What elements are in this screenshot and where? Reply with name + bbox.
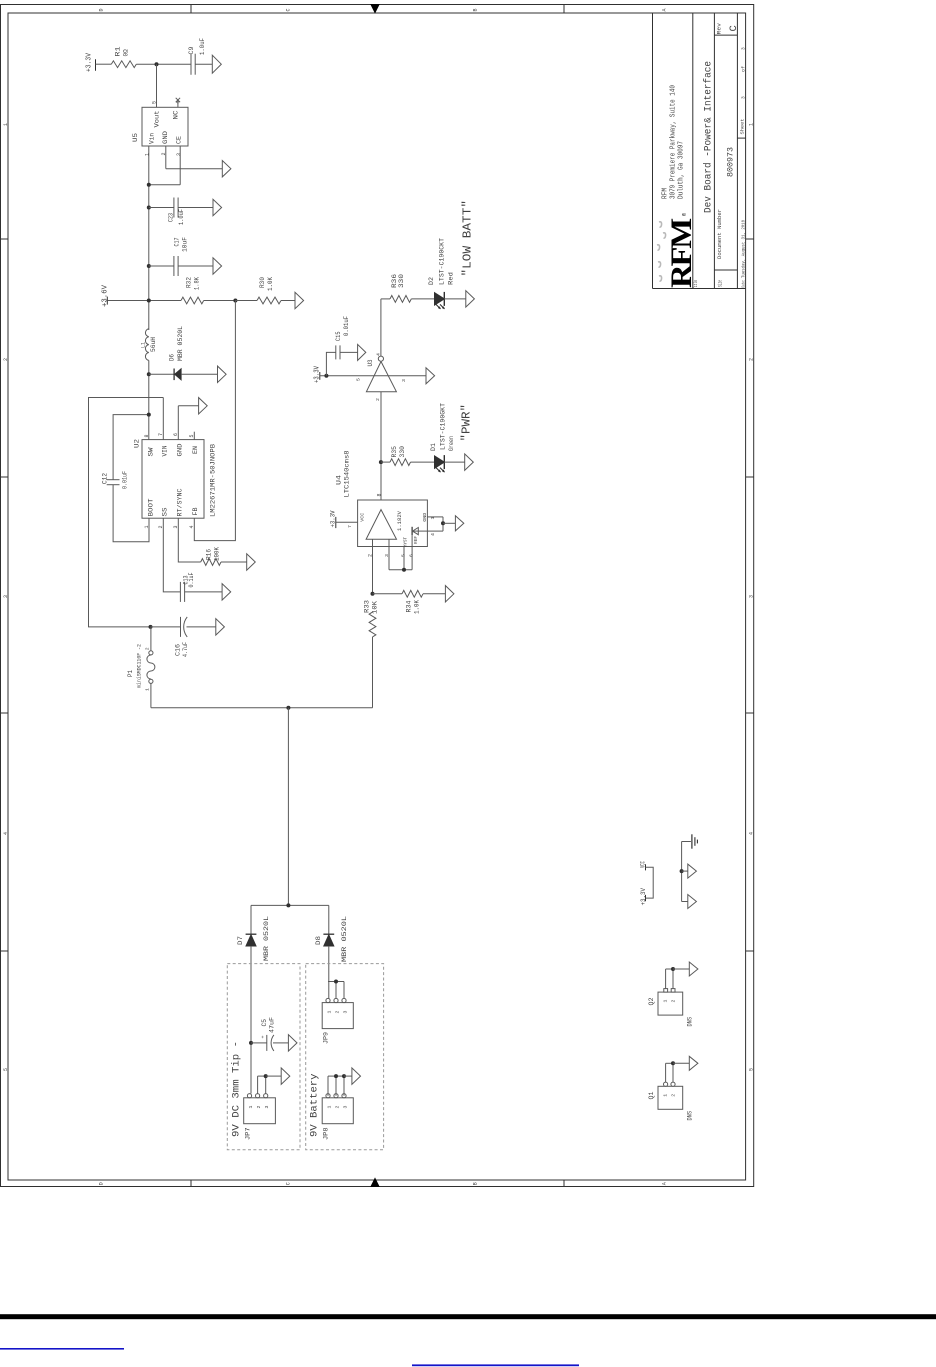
svg-text:R35: R35 bbox=[391, 446, 398, 458]
svg-text:6: 6 bbox=[409, 554, 415, 557]
svg-text:L1: L1 bbox=[140, 341, 147, 348]
svg-text:C16: C16 bbox=[175, 644, 182, 656]
svg-text:Duluth, Ga 30097: Duluth, Ga 30097 bbox=[678, 141, 686, 199]
svg-text:Date:: Date: bbox=[741, 280, 747, 288]
svg-text:1.8K: 1.8K bbox=[194, 277, 201, 290]
svg-text:MBR 0520L: MBR 0520L bbox=[177, 326, 184, 361]
svg-text:U4: U4 bbox=[336, 475, 343, 485]
svg-text:HYST: HYST bbox=[403, 537, 409, 547]
svg-text:5: 5 bbox=[356, 378, 362, 381]
svg-text:4: 4 bbox=[189, 525, 195, 528]
svg-text:JP9: JP9 bbox=[323, 1032, 330, 1044]
svg-text:C23: C23 bbox=[168, 213, 175, 222]
svg-text:1: 1 bbox=[145, 153, 151, 156]
svg-text:3: 3 bbox=[741, 96, 747, 99]
svg-text:6: 6 bbox=[173, 433, 179, 436]
svg-text:8: 8 bbox=[144, 434, 150, 437]
svg-text:7: 7 bbox=[158, 433, 164, 436]
svg-text:330: 330 bbox=[398, 274, 405, 288]
svg-text:Sheet: Sheet bbox=[740, 118, 746, 134]
svg-text:DNS: DNS bbox=[687, 1111, 694, 1121]
svg-text:C12: C12 bbox=[102, 473, 109, 484]
svg-text:D7: D7 bbox=[237, 936, 244, 945]
svg-text:C15: C15 bbox=[335, 331, 342, 341]
svg-text:1: 1 bbox=[327, 1011, 333, 1014]
svg-text:47uF: 47uF bbox=[269, 1017, 276, 1033]
svg-text:3: 3 bbox=[401, 379, 407, 382]
svg-text:D: D bbox=[99, 8, 105, 11]
svg-text:EN: EN bbox=[192, 446, 199, 454]
svg-text:LTST-C190GKT: LTST-C190GKT bbox=[440, 403, 447, 450]
svg-text:U5: U5 bbox=[132, 133, 139, 142]
svg-text:SW: SW bbox=[148, 447, 155, 456]
svg-text:MBR 0520L: MBR 0520L bbox=[341, 916, 348, 962]
svg-text:8: 8 bbox=[377, 493, 383, 496]
svg-text:C: C bbox=[728, 25, 740, 31]
svg-text:Q2: Q2 bbox=[648, 997, 655, 1005]
svg-text:GND: GND bbox=[422, 513, 428, 522]
svg-text:2: 2 bbox=[335, 1011, 341, 1014]
svg-text:SS: SS bbox=[162, 507, 169, 516]
svg-text:"PWR": "PWR" bbox=[460, 404, 474, 442]
svg-text:2: 2 bbox=[375, 398, 381, 401]
svg-text:2: 2 bbox=[144, 647, 150, 650]
svg-text:Vin: Vin bbox=[149, 133, 156, 144]
svg-text:Vout: Vout bbox=[154, 110, 161, 127]
svg-text:P1: P1 bbox=[127, 670, 134, 677]
svg-text:2: 2 bbox=[670, 1000, 676, 1003]
svg-text:Dev Board -Power& Interface: Dev Board -Power& Interface bbox=[703, 61, 715, 213]
svg-text:R32: R32 bbox=[186, 277, 193, 288]
svg-text:D6: D6 bbox=[169, 354, 176, 361]
svg-text:3: 3 bbox=[343, 1011, 349, 1014]
svg-text:4: 4 bbox=[3, 832, 9, 835]
svg-text:D: D bbox=[99, 1182, 105, 1185]
svg-text:3: 3 bbox=[264, 1106, 270, 1109]
svg-text:Rev: Rev bbox=[717, 23, 723, 35]
svg-text:330: 330 bbox=[399, 446, 406, 458]
svg-text:R30: R30 bbox=[259, 277, 266, 288]
svg-text:2: 2 bbox=[335, 1106, 341, 1109]
svg-text:5: 5 bbox=[189, 434, 195, 437]
svg-text:+3.3V: +3.3V bbox=[86, 52, 94, 72]
svg-text:1: 1 bbox=[430, 517, 436, 520]
svg-text:7: 7 bbox=[347, 525, 353, 528]
svg-text:1: 1 bbox=[748, 123, 754, 126]
svg-text:D2: D2 bbox=[428, 277, 435, 285]
svg-text:B: B bbox=[473, 1182, 479, 1185]
svg-text:0.1uF: 0.1uF bbox=[188, 572, 195, 587]
svg-text:10uF: 10uF bbox=[182, 237, 189, 252]
svg-text:JP8: JP8 bbox=[323, 1127, 330, 1140]
svg-text:VCC: VCC bbox=[360, 513, 366, 522]
svg-text:U2: U2 bbox=[134, 439, 141, 448]
svg-text:U3: U3 bbox=[367, 359, 374, 366]
svg-text:4: 4 bbox=[748, 832, 754, 835]
svg-text:0.01uF: 0.01uF bbox=[343, 316, 350, 336]
svg-text:3: 3 bbox=[343, 1106, 349, 1109]
svg-text:5: 5 bbox=[748, 1068, 754, 1071]
svg-text:C: C bbox=[286, 1182, 292, 1185]
svg-text:Title: Title bbox=[692, 280, 699, 289]
svg-text:R36: R36 bbox=[391, 274, 398, 288]
svg-text:1: 1 bbox=[327, 1106, 333, 1109]
svg-text:C17: C17 bbox=[174, 237, 181, 246]
svg-text:100K: 100K bbox=[214, 547, 221, 561]
svg-text:1.0K: 1.0K bbox=[414, 600, 421, 614]
svg-text:C: C bbox=[286, 8, 292, 11]
svg-text:NC: NC bbox=[173, 110, 180, 119]
svg-text:2: 2 bbox=[368, 554, 374, 557]
svg-text:C9: C9 bbox=[188, 46, 195, 54]
svg-text:1.0uF: 1.0uF bbox=[199, 38, 206, 55]
svg-text:1: 1 bbox=[663, 1094, 669, 1097]
svg-text:LTST-C190CKT: LTST-C190CKT bbox=[439, 238, 446, 285]
svg-text:R16: R16 bbox=[206, 549, 213, 560]
svg-text:3: 3 bbox=[741, 47, 747, 50]
svg-text:3: 3 bbox=[748, 595, 754, 598]
svg-text:Red: Red bbox=[448, 272, 455, 285]
svg-text:miniSMDC110F -2: miniSMDC110F -2 bbox=[137, 644, 143, 688]
svg-text:Q1: Q1 bbox=[648, 1091, 655, 1099]
svg-text:10K: 10K bbox=[372, 601, 379, 614]
svg-text:D1: D1 bbox=[430, 443, 437, 451]
svg-text:5: 5 bbox=[152, 101, 158, 104]
svg-text:2: 2 bbox=[256, 1106, 262, 1109]
svg-text:R33: R33 bbox=[364, 600, 371, 613]
svg-text:3: 3 bbox=[384, 554, 390, 557]
svg-text:2: 2 bbox=[3, 358, 9, 361]
svg-text:RFM: RFM bbox=[662, 188, 670, 199]
svg-text:1: 1 bbox=[663, 1000, 669, 1003]
svg-text:C5: C5 bbox=[261, 1019, 268, 1027]
svg-text:"LOW BATT": "LOW BATT" bbox=[461, 200, 475, 277]
svg-text:1: 1 bbox=[3, 123, 9, 126]
svg-text:1.182V: 1.182V bbox=[396, 510, 403, 531]
svg-text:Size: Size bbox=[718, 280, 724, 287]
svg-text:0.01uF: 0.01uF bbox=[122, 471, 129, 489]
svg-text:9V DC 3mm Tip -: 9V DC 3mm Tip - bbox=[231, 1041, 243, 1137]
svg-text:1: 1 bbox=[248, 1106, 254, 1109]
svg-text:A: A bbox=[662, 1182, 668, 1185]
svg-text:GND: GND bbox=[177, 443, 184, 456]
svg-text:LM22671MR-50JNOPB: LM22671MR-50JNOPB bbox=[210, 444, 218, 517]
svg-text:VIN: VIN bbox=[162, 445, 169, 456]
svg-text:+3.6V: +3.6V bbox=[101, 284, 109, 307]
svg-text:of: of bbox=[741, 66, 747, 72]
svg-text:LTC1540cms8: LTC1540cms8 bbox=[344, 450, 351, 497]
svg-text:3: 3 bbox=[3, 595, 9, 598]
svg-text:1.0uF: 1.0uF bbox=[178, 209, 185, 225]
svg-text:R1: R1 bbox=[115, 46, 122, 56]
svg-text:+: + bbox=[261, 1035, 267, 1038]
svg-text:D8: D8 bbox=[315, 936, 322, 945]
svg-text:R34: R34 bbox=[406, 600, 413, 612]
svg-text:RT/SYNC: RT/SYNC bbox=[177, 488, 184, 516]
svg-text:2: 2 bbox=[748, 358, 754, 361]
svg-text:MBR 0520L: MBR 0520L bbox=[263, 916, 270, 961]
svg-text:B: B bbox=[473, 8, 479, 11]
svg-text:1: 1 bbox=[144, 688, 150, 691]
svg-text:A: A bbox=[662, 8, 668, 11]
svg-text:RFM: RFM bbox=[665, 218, 698, 288]
svg-text:Green: Green bbox=[448, 436, 455, 451]
svg-text:Tuesday, August 31, 2010: Tuesday, August 31, 2010 bbox=[741, 220, 747, 278]
svg-text:3: 3 bbox=[176, 153, 182, 156]
svg-text:3079 Premiere Parkway, Suite 1: 3079 Premiere Parkway, Suite 140 bbox=[670, 85, 678, 199]
svg-text:1.0K: 1.0K bbox=[267, 277, 274, 291]
svg-text:5: 5 bbox=[401, 554, 407, 557]
svg-text:®: ® bbox=[681, 213, 688, 216]
svg-text:56uH: 56uH bbox=[150, 337, 157, 352]
svg-text:4.7uF: 4.7uF bbox=[182, 642, 189, 657]
svg-text:2: 2 bbox=[670, 1094, 676, 1097]
svg-text:4: 4 bbox=[430, 533, 436, 536]
svg-text:800973: 800973 bbox=[726, 147, 736, 177]
svg-text:9V Battery: 9V Battery bbox=[309, 1074, 321, 1138]
svg-text:BOOT: BOOT bbox=[148, 498, 155, 516]
svg-text:0Ω: 0Ω bbox=[123, 49, 130, 57]
svg-text:DNS: DNS bbox=[687, 1017, 694, 1027]
svg-text:JP7: JP7 bbox=[245, 1127, 252, 1140]
svg-text:REF: REF bbox=[413, 536, 419, 544]
svg-text:CE: CE bbox=[176, 136, 183, 144]
svg-text:FB: FB bbox=[192, 507, 199, 515]
svg-text:GND: GND bbox=[162, 131, 169, 144]
svg-text:5: 5 bbox=[3, 1068, 9, 1071]
svg-text:Document Number: Document Number bbox=[716, 209, 723, 259]
